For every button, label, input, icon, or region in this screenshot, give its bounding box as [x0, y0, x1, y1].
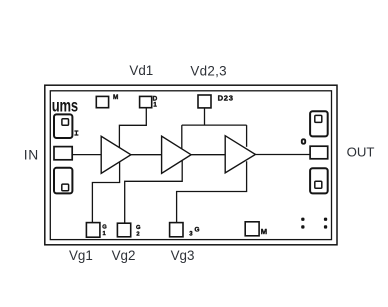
- wire A1 to A2: [131, 154, 162, 156]
- svg-text:D23: D23: [218, 94, 234, 103]
- svg-text:G: G: [102, 224, 107, 230]
- pad P_TR (top-right pad): [310, 111, 328, 136]
- amplifier A2: [162, 136, 192, 173]
- pad G1: [86, 223, 100, 238]
- pad D1: [140, 96, 152, 107]
- svg-text:Vg2: Vg2: [112, 248, 136, 263]
- wire G3: [177, 161, 247, 222]
- wire D3 drop: [246, 125, 248, 147]
- pad P_BL (bottom-left pad): [54, 168, 72, 194]
- pad M bottom: [245, 222, 259, 236]
- svg-text:3: 3: [189, 231, 193, 237]
- svg-text:IN: IN: [24, 148, 39, 163]
- svg-text:2: 2: [136, 231, 139, 237]
- wire A2 to A3: [191, 154, 225, 156]
- svg-text:Vd1: Vd1: [129, 63, 153, 78]
- wire G2: [125, 161, 183, 224]
- svg-text:G: G: [195, 227, 200, 234]
- pad M top: [96, 96, 108, 107]
- pad P_BR inner square: [315, 181, 322, 188]
- wire IN to A1: [72, 154, 101, 156]
- svg-text:M: M: [261, 227, 267, 236]
- wire D23 stem: [204, 108, 206, 125]
- label I: [74, 131, 78, 135]
- svg-text:ums: ums: [52, 97, 79, 116]
- chip inner border: [50, 91, 331, 240]
- pad P_TL (top-left RF probe pad): [54, 114, 72, 138]
- svg-text:Vg3: Vg3: [171, 248, 195, 263]
- svg-text:OUT: OUT: [347, 145, 375, 160]
- pad G3: [170, 223, 183, 237]
- pad G2: [117, 223, 130, 237]
- pad P_TL inner square: [62, 119, 69, 125]
- wire G1: [92, 162, 119, 223]
- svg-text:1: 1: [153, 101, 157, 108]
- pad P_BR (bottom-right pad): [310, 168, 328, 193]
- svg-text:M: M: [113, 94, 118, 101]
- svg-text:1: 1: [103, 231, 107, 237]
- wire A3 to OUT: [255, 154, 310, 156]
- svg-text:Vg1: Vg1: [69, 248, 93, 263]
- chip outer border: [45, 85, 337, 245]
- pad OUT: [310, 146, 328, 159]
- amplifier A1: [101, 136, 131, 173]
- alignment dot 4: [324, 225, 327, 228]
- alignment dot 2: [324, 218, 327, 221]
- svg-text:Vd2,3: Vd2,3: [190, 64, 227, 79]
- wire D2 drop: [181, 125, 183, 149]
- pad IN: [54, 147, 72, 160]
- pad D23: [198, 95, 211, 108]
- pad P_BL inner square: [62, 184, 69, 191]
- alignment dot 3: [301, 225, 304, 228]
- amplifier A3: [225, 136, 255, 173]
- wire D23 rail: [182, 124, 247, 126]
- label O: [302, 139, 305, 143]
- svg-text:G: G: [136, 225, 141, 231]
- alignment dot 1: [301, 218, 304, 221]
- wire D1: [119, 108, 146, 148]
- pad P_TR inner square: [315, 115, 322, 122]
